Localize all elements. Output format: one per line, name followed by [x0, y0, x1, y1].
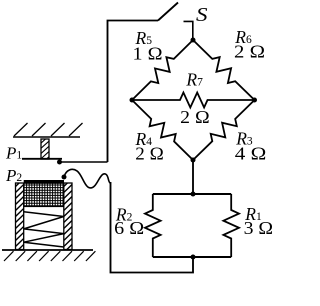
svg-text:6 Ω: 6 Ω	[114, 218, 144, 238]
svg-text:3 Ω: 3 Ω	[244, 218, 274, 238]
svg-text:1 Ω: 1 Ω	[133, 43, 163, 63]
svg-text:2 Ω: 2 Ω	[135, 143, 164, 163]
svg-text:4 Ω: 4 Ω	[235, 143, 266, 163]
svg-text:S: S	[196, 5, 208, 26]
svg-text:2 Ω: 2 Ω	[180, 107, 210, 127]
svg-text:2 Ω: 2 Ω	[234, 41, 265, 61]
